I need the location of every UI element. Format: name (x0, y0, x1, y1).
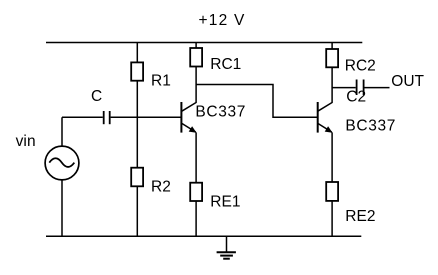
svg-text:RE2: RE2 (345, 208, 375, 225)
svg-text:vin: vin (16, 133, 36, 150)
svg-text:R1: R1 (151, 73, 171, 90)
svg-text:RC1: RC1 (210, 56, 241, 73)
svg-text:BC337: BC337 (195, 104, 245, 121)
svg-text:RC2: RC2 (345, 57, 376, 74)
svg-text:BC337: BC337 (345, 118, 395, 135)
svg-text:OUT: OUT (391, 73, 424, 90)
svg-text:RE1: RE1 (210, 194, 240, 211)
svg-text:+12 V: +12 V (199, 12, 245, 29)
svg-text:C: C (91, 88, 102, 105)
svg-text:C2: C2 (346, 89, 366, 106)
svg-text:R2: R2 (151, 179, 171, 196)
